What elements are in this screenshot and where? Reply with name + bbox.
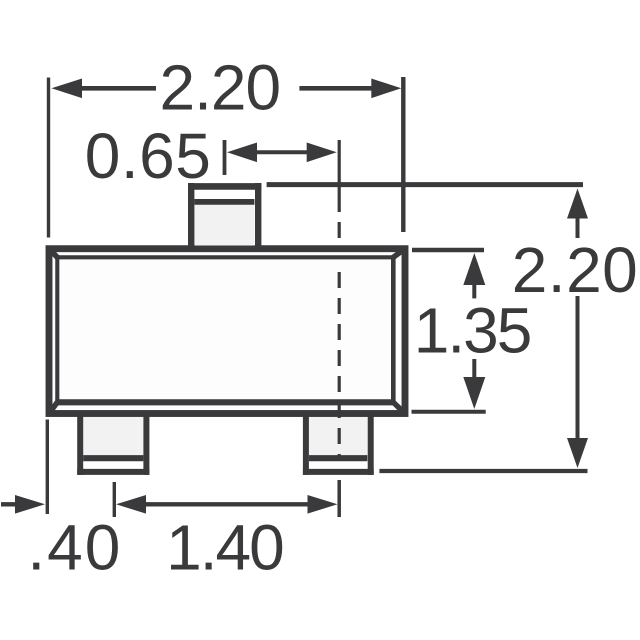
dimension line 0.65 with two arrows: [227, 143, 337, 163]
dimension line 2.20 top, right part with arrow: [299, 79, 401, 99]
extension line right (for 2.20 top): [401, 77, 405, 232]
dimension line 2.20 right, top part with up arrow: [567, 189, 588, 239]
bottom-right lead (pin): [303, 412, 374, 475]
dimension line 1.35, bottom part with down arrow: [463, 359, 485, 409]
bottom-left lead (pin): [77, 412, 149, 475]
body corner chamfer bottom-right: [393, 402, 405, 413]
top lead (pin): [188, 183, 261, 246]
package body inner outline top: [55, 255, 395, 259]
svg-text:1.40: 1.40: [166, 512, 283, 584]
extension line 1.35 bottom: [412, 410, 486, 414]
body corner chamfer top-left: [49, 249, 57, 258]
svg-text:1.35: 1.35: [414, 294, 531, 366]
svg-text:.40: .40: [27, 512, 122, 584]
svg-text:2.20: 2.20: [160, 51, 281, 123]
svg-text:0.65: 0.65: [85, 120, 212, 192]
dimension line 2.20 top, left part with arrow: [52, 79, 157, 99]
package body outer outline: [49, 249, 405, 414]
extension tick left of 1.40 (bottom-left lead center): [113, 482, 116, 517]
body corner chamfer bottom-left: [49, 402, 57, 413]
body corner chamfer top-right: [393, 249, 405, 258]
extension line from top lead to right 2.20 dimension: [267, 182, 583, 187]
package body inner outline bottom: [55, 399, 395, 405]
extension tick for 0.65 (lead center): [223, 140, 227, 175]
extension line 1.35 top: [412, 248, 484, 253]
extension line bottom right (for 2.20 right): [379, 469, 587, 473]
dimension line 2.20 right, bottom part with down arrow: [567, 296, 588, 468]
dimension line 1.40 with two arrows: [116, 495, 338, 514]
dimension line 1.35, top part with up arrow: [463, 253, 485, 298]
centerline of bottom-right lead (dashed): [338, 140, 341, 212]
extension line left (for 2.20 top and .40): [47, 78, 50, 238]
svg-text:2.20: 2.20: [512, 234, 639, 306]
dimension line .40 with outside arrow: [1, 495, 45, 514]
package body inner outline left: [55, 255, 59, 404]
package body inner outline right: [391, 255, 396, 404]
